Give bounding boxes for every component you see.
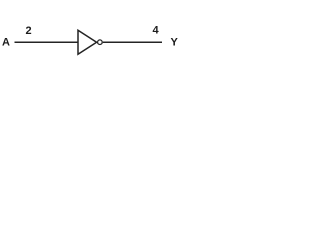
svg-text:Y: Y: [171, 36, 179, 48]
wire inverter output to Y: [103, 41, 162, 43]
inversion bubble: [98, 40, 103, 45]
node Y: [171, 36, 179, 48]
inverter U1: [78, 30, 97, 54]
pin 4: [153, 25, 160, 37]
node A: [2, 36, 10, 48]
pin 2: [26, 25, 32, 37]
svg-text:2: 2: [26, 25, 32, 37]
wire A to inverter input: [15, 41, 79, 43]
svg-text:A: A: [2, 36, 10, 48]
svg-text:4: 4: [153, 25, 160, 37]
